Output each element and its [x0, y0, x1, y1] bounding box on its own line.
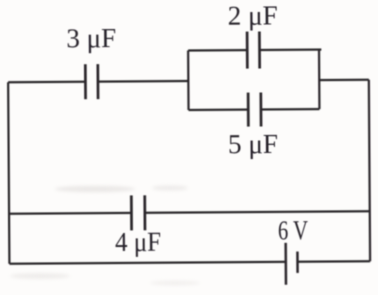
capacitor C4 4uF right plate — [143, 195, 146, 230]
wire bottom right segment — [298, 260, 371, 263]
svg-text:3 μF: 3 μF — [66, 23, 116, 53]
wire left vertical — [8, 82, 9, 263]
node block right edge — [318, 50, 321, 109]
capacitor C1 3uF left plate — [84, 64, 87, 99]
svg-text:5 μF: 5 μF — [228, 129, 278, 159]
battery V1 6V short plate — [296, 252, 299, 273]
wire middle right segment — [145, 211, 370, 213]
capacitor C3 5uF right plate — [259, 92, 262, 126]
battery V1 6V long plate — [284, 243, 287, 285]
wire block bottom branch right — [261, 108, 319, 111]
wire bottom left segment — [9, 262, 285, 264]
wire middle left segment — [9, 212, 131, 215]
wire top-left segment — [8, 81, 85, 84]
capacitor C3 5uF left plate — [247, 93, 250, 127]
wire 3uF to parallel block — [98, 80, 188, 83]
capacitor C1 3uF right plate — [96, 64, 99, 99]
wire block to right corner — [319, 79, 369, 82]
wire right vertical — [369, 80, 370, 261]
capacitor C2 2uF left plate — [246, 32, 249, 69]
svg-text:2 μF: 2 μF — [228, 0, 278, 30]
capacitor C2 2uF right plate — [258, 32, 261, 69]
svg-text:6 V: 6 V — [278, 215, 309, 245]
wire block top branch right — [260, 48, 322, 51]
node block left edge — [187, 51, 190, 110]
capacitor C4 4uF left plate — [130, 195, 133, 230]
svg-text:4 μF: 4 μF — [115, 227, 161, 257]
wire block top branch left — [188, 49, 247, 52]
wire block bottom branch left — [189, 108, 249, 111]
